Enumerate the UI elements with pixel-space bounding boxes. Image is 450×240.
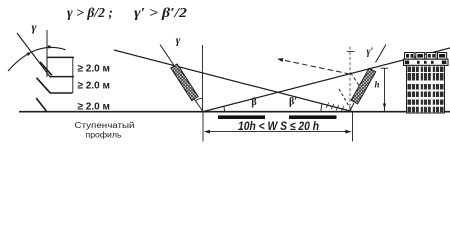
svg-text:β′: β′: [289, 97, 297, 108]
svg-text:≥ 2.0 м: ≥ 2.0 м: [78, 80, 111, 92]
svg-text:γ′ > β′/2: γ′ > β′/2: [134, 6, 187, 21]
svg-text:γ > β/2 ;: γ > β/2 ;: [67, 6, 113, 21]
svg-text:β: β: [251, 97, 256, 108]
svg-text:h: h: [374, 80, 379, 90]
svg-text:≥ 2.0 м: ≥ 2.0 м: [78, 62, 111, 74]
svg-text:Ступенчатый: Ступенчатый: [75, 121, 135, 130]
svg-text:γ: γ: [176, 35, 181, 47]
svg-text:γ′: γ′: [367, 47, 374, 58]
svg-text:γ: γ: [32, 20, 37, 34]
svg-text:≥ 2.0 м: ≥ 2.0 м: [78, 100, 111, 112]
svg-text:профиль: профиль: [86, 131, 122, 140]
svg-text:10h < W S ≤ 20 h: 10h < W S ≤ 20 h: [238, 119, 319, 133]
